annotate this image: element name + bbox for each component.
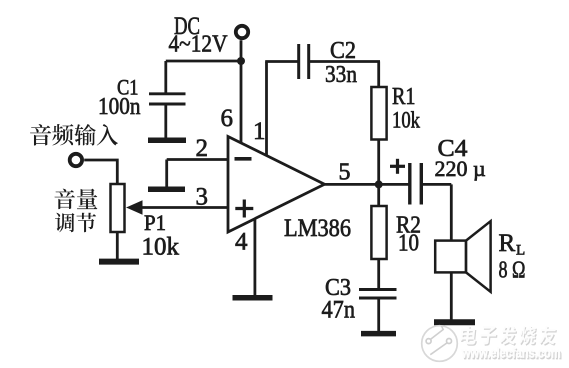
svg-text:10k: 10k (392, 108, 420, 133)
svg-text:3: 3 (196, 184, 209, 211)
svg-text:1: 1 (253, 118, 266, 145)
svg-text:L: L (516, 243, 525, 259)
svg-text:33n: 33n (325, 62, 357, 88)
svg-text:6: 6 (221, 105, 234, 132)
svg-text:100n: 100n (98, 94, 141, 120)
svg-text:R: R (499, 230, 516, 257)
svg-text:5: 5 (339, 160, 351, 186)
svg-text:4: 4 (235, 229, 248, 256)
svg-text:10: 10 (398, 231, 419, 257)
svg-text:10k: 10k (142, 234, 180, 261)
svg-text:LM386: LM386 (284, 215, 351, 242)
svg-text:R1: R1 (392, 84, 416, 110)
svg-text:C2: C2 (330, 38, 356, 64)
svg-text:8 Ω: 8 Ω (499, 258, 526, 284)
svg-text:www.elecfans.com: www.elecfans.com (461, 346, 561, 361)
svg-text:2: 2 (196, 135, 209, 162)
svg-text:47n: 47n (322, 297, 356, 324)
svg-text:220 µ: 220 µ (435, 156, 486, 181)
svg-text:P1: P1 (144, 210, 166, 235)
svg-text:4~12V: 4~12V (169, 31, 228, 58)
